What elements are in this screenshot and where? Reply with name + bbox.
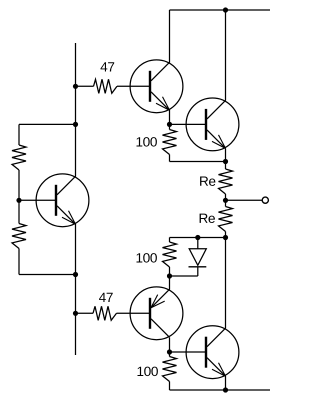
diode D1 cathode lead [197,267,199,276]
resistor Re lower [219,207,233,232]
node bias divider / Q5 base [16,198,21,203]
wire 47 bottom right lead to Q3 base [117,312,152,314]
diode D1 triangle [189,249,206,265]
resistor 100 mid [163,242,177,267]
wire 100 bottom lower lead [169,382,171,391]
wire bias branch bottom horizontal [19,274,76,276]
wire 47 top left lead [76,85,94,87]
terminal output open circle [262,197,268,203]
label Re upper [200,177,215,186]
node output junction [223,198,228,203]
wire Q2 base lead [170,123,208,125]
node diode anode junction [195,235,200,240]
wire Q3 collector down [169,338,171,353]
label 100 mid [137,253,157,263]
wire bias branch middle [18,170,20,224]
node main vertical / 47 top [73,84,78,89]
wire Q4 base lead [170,351,208,353]
node main vertical / 47 bottom [73,311,78,316]
wire top supply rail [170,9,271,11]
wire Re lower upper lead [225,200,227,206]
wire diode cathode to Q3 emitter node [170,275,198,277]
diode D1 anode lead [197,238,199,249]
node Q1 emitter / Q2 base / 100 top [167,122,172,127]
transistor Q4 lower output [186,326,239,379]
wire main input vertical upper [75,43,77,177]
resistor Re upper [219,169,233,194]
wire output lead [226,199,263,201]
wire 100 mid upper lead [169,238,171,243]
node Q2 emitter junction [223,159,228,164]
transistor Q2 upper output [186,98,239,151]
wire bias branch upper lead [18,124,20,145]
node top rail junction [223,7,228,12]
wire 47 top right lead to Q1 base [117,85,151,87]
wire Re upper lower lead [225,194,227,200]
wire bias branch lower lead [18,249,20,275]
node Q3 collector / Q4 base / 100 bottom [167,349,172,354]
wire bias row horizontal [170,237,226,239]
wire Re upper lead [225,162,227,170]
resistor bias upper [12,145,26,170]
resistor 100 bottom [163,357,177,382]
node main vertical / bias branch top [73,122,78,127]
wire Re lower bottom lead [225,232,227,238]
wire Q4 emitter down [225,376,227,390]
node main vertical / Q5 emitter return [73,272,78,277]
node bottom rail junction [223,387,228,392]
wire 47 bottom left lead [76,312,94,314]
label 100 top [137,137,157,147]
diode D1 cathode bar [189,266,207,268]
wire Q3 emitter up [169,276,171,290]
resistor 47 top [94,79,118,93]
wire 100 top upper lead [169,124,171,129]
resistor 47 bottom [93,306,117,320]
node Q3 emitter junction [167,273,172,278]
wire Q4 collector vertical [225,238,227,329]
wire 100 mid lower lead [169,267,171,276]
wire Q5 base lead [19,199,57,201]
wire main input vertical lower [75,224,77,355]
resistor bias lower [12,224,26,249]
wire 100 top lower lead [169,155,171,162]
label Re lower [200,214,215,223]
node Re lower / Q4 collector [223,235,228,240]
label 47 top [101,62,115,71]
transistor Q3 lower predriver PNP [130,287,183,340]
wire Q1 emitter down [169,110,171,125]
label 100 bottom [138,367,158,377]
wire bias branch top horizontal [19,123,76,125]
wire Q2 collector to top rail [225,10,227,101]
label 47 bottom [99,293,113,302]
resistor 100 top [163,130,177,155]
transistor Q1 upper predriver [130,60,183,113]
transistor Q5 driver [36,174,89,227]
wire 100 bottom upper lead [169,352,171,357]
wire Q1 collector to top rail [169,10,171,63]
wire bottom supply rail [170,389,271,391]
wire Q2 emitter down [225,149,227,162]
wire 100 top to Q2 emitter node [170,161,226,163]
